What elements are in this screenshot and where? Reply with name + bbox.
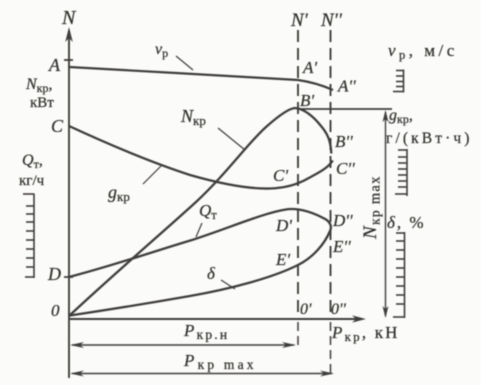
svg-text:0: 0 (51, 301, 60, 320)
leader N_kr (218, 128, 245, 150)
v_p ruler scale (right) (393, 70, 404, 93)
x-axis (69, 318, 356, 320)
svg-text:Nкр mах: Nкр mах (360, 175, 384, 240)
svg-text:D': D' (275, 216, 292, 235)
svg-text:B'': B'' (335, 132, 353, 151)
svg-text:Qт: Qт (199, 201, 217, 222)
dimension line P_kr_max (72, 373, 332, 375)
svg-text:Pкр, кН: Pкр, кН (331, 323, 400, 344)
svg-text:δ, %: δ, % (387, 213, 426, 232)
svg-text:0'': 0'' (331, 301, 346, 318)
svg-text:A'': A'' (337, 77, 356, 96)
tick A on y-axis (64, 59, 73, 61)
svg-text:кВт: кВт (30, 95, 54, 111)
svg-text:C: C (51, 116, 64, 136)
dashed line N' below axis (297, 322, 299, 348)
horizontal line from B' (297, 108, 392, 110)
N_kr_max vertical dimension arrow (385, 112, 387, 316)
svg-text:gкр,: gкр, (389, 107, 413, 126)
svg-text:D'': D'' (332, 211, 353, 230)
svg-text:Pкр.н: Pкр.н (183, 321, 229, 342)
svg-text:A': A' (302, 58, 317, 77)
leader Q_t (196, 223, 202, 237)
y-axis (68, 30, 70, 378)
g_kr ruler scale (right) (395, 149, 407, 196)
svg-text:gкр: gкр (108, 182, 130, 204)
svg-text:C'': C'' (336, 159, 355, 178)
svg-text:г/(кВт·ч): г/(кВт·ч) (386, 130, 473, 147)
dashed line N'' (330, 30, 332, 319)
svg-text:A: A (48, 55, 61, 75)
dashed line N' (297, 30, 299, 319)
svg-text:Qт,: Qт, (22, 152, 43, 171)
leader v_p (176, 56, 193, 70)
svg-text:Pкр mах: Pкр mах (183, 351, 257, 372)
dimension line P_kr.n (72, 344, 294, 346)
svg-text:vр, м/с: vр, м/с (388, 41, 458, 62)
svg-text:кг/ч: кг/ч (19, 173, 45, 189)
dashed line N'' below axis (330, 322, 332, 376)
svg-text:N': N' (290, 10, 309, 31)
curve g_kr (69, 126, 333, 189)
leader g_kr (143, 166, 161, 184)
svg-text:E': E' (275, 250, 290, 269)
x-axis arrowhead (352, 315, 366, 322)
svg-text:vр: vр (155, 41, 168, 60)
svg-text:B': B' (300, 91, 314, 110)
curve v_p (69, 67, 333, 90)
svg-text:C': C' (273, 166, 288, 185)
svg-text:D: D (47, 264, 61, 284)
curve N_kr (69, 108, 331, 316)
tick D on y-axis (64, 276, 73, 278)
y-axis arrowhead (65, 27, 73, 42)
curve Q_t and delta loop (69, 209, 331, 316)
left ruler scale (Q_t axis) (23, 194, 34, 279)
svg-text:Nкр: Nкр (180, 106, 206, 128)
svg-text:N'': N'' (320, 10, 343, 31)
svg-text:0': 0' (300, 301, 312, 318)
svg-text:E'': E'' (332, 237, 351, 256)
svg-text:δ: δ (207, 264, 216, 283)
svg-text:Nкр,: Nкр, (25, 76, 53, 95)
svg-text:N: N (61, 7, 77, 29)
leader delta (221, 280, 235, 289)
delta ruler scale (right) (393, 232, 405, 318)
